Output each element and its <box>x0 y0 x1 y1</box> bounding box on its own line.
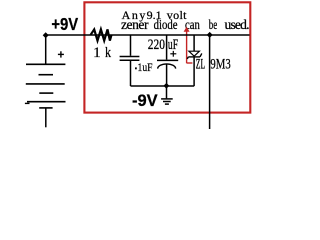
junction dot bottom <box>164 83 170 89</box>
capacitor C1 plate top <box>157 59 178 61</box>
battery B1 bottom lead <box>45 108 47 127</box>
capacitor C2 plate top <box>120 56 140 58</box>
battery B1 plates <box>26 64 66 108</box>
svg-text:k: k <box>105 44 111 61</box>
battery B1 top lead <box>45 35 47 64</box>
node +9V dot <box>43 32 49 38</box>
wire top rail <box>46 34 250 36</box>
annotation box (red) <box>84 2 250 112</box>
zener diode D1 top lead <box>193 35 195 51</box>
ground symbol <box>161 99 173 104</box>
svg-text:diode: diode <box>154 17 178 32</box>
capacitor C1 plus sign <box>170 51 176 57</box>
svg-text:9M3: 9M3 <box>210 57 230 73</box>
junction dot top right <box>207 32 213 38</box>
svg-text:1: 1 <box>93 44 101 61</box>
red annotation arrow <box>184 27 193 63</box>
zener diode D1 cathode bar <box>187 53 202 59</box>
svg-text:220: 220 <box>148 37 165 53</box>
wire bottom rail <box>131 85 195 87</box>
svg-text:used.: used. <box>225 17 250 32</box>
svg-text:zener: zener <box>121 17 149 32</box>
capacitor C1 220uF top lead <box>166 35 168 60</box>
label .1uF <box>135 67 137 69</box>
zener diode D1 bottom lead <box>193 57 195 86</box>
resistor R1 <box>91 29 112 40</box>
svg-text:-9V: -9V <box>132 91 158 110</box>
capacitor C2 .1uF top lead <box>130 35 132 56</box>
zener diode D1 triangle <box>189 51 200 56</box>
svg-text:1uF: 1uF <box>138 60 153 74</box>
capacitor C1 plate bottom (curved) <box>158 64 176 69</box>
svg-text:be: be <box>209 17 218 32</box>
ground lead <box>166 86 168 98</box>
svg-text:+9V: +9V <box>51 14 78 34</box>
capacitor C1 bottom lead <box>166 64 168 86</box>
wire right vertical <box>209 35 211 129</box>
battery B1 plus sign <box>58 51 64 57</box>
capacitor C2 plate bottom <box>120 59 140 61</box>
battery B1 minus sign <box>25 102 30 104</box>
capacitor C2 bottom lead <box>130 61 132 86</box>
svg-text:uF: uF <box>168 37 178 53</box>
svg-text:ZL: ZL <box>196 57 205 73</box>
